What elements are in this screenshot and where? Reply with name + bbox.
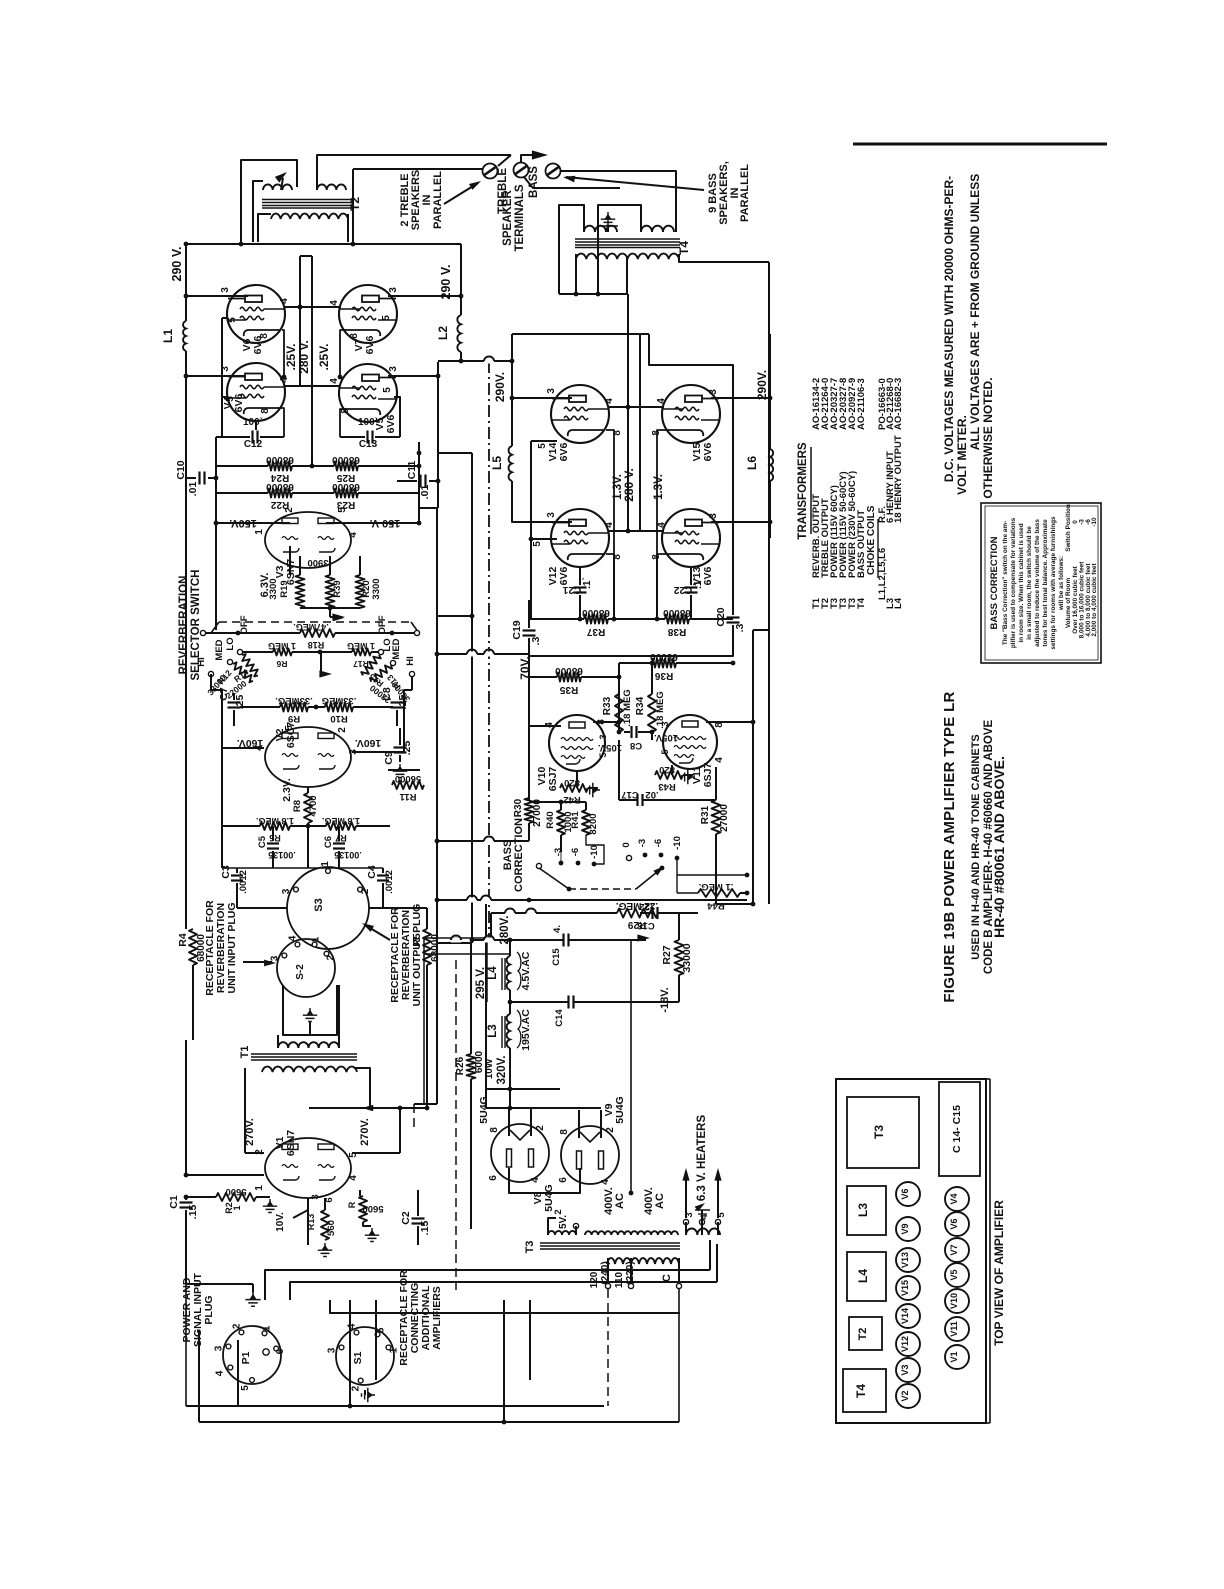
svg-text:3: 3 [327,1347,338,1353]
svg-text:.3: .3 [734,623,746,632]
transformer T3 primary [607,1258,679,1264]
svg-text:5: 5 [537,443,548,449]
tube V11 6SJ7 [663,715,717,769]
svg-text:5: 5 [598,752,608,757]
capacitor C6 .00135 [333,842,345,844]
riser bundle horizontals lower [330,1300,680,1313]
long verticals lower mid [490,913,492,940]
resistor R24 68000 [216,465,268,467]
svg-text:C15: C15 [551,948,562,966]
svg-text:CORRECTION: CORRECTION [513,818,525,892]
svg-text:.18 MEG: .18 MEG [622,689,633,727]
bottom rail 2 [199,1421,679,1423]
capacitor C10 .01 [186,477,196,479]
resistor R41 8200 [585,802,587,810]
svg-text:REVERBERATION: REVERBERATION [178,576,190,675]
wire mid buses [299,256,301,386]
tube V8 5U4G [491,1124,549,1182]
capacitor C1 .15 [185,1197,187,1200]
resistor R29 .22MEG [560,912,617,914]
svg-text:4: 4 [348,532,359,538]
svg-text:.25: .25 [401,741,413,756]
svg-text:T4: T4 [856,597,867,609]
pin5 V14 [531,440,557,442]
resistor R16 1MEG [243,651,273,653]
svg-text:6V6: 6V6 [385,415,397,434]
svg-text:OFF: OFF [377,615,388,634]
capacitor C13 100 [340,409,346,437]
svg-text:1 MEG: 1 MEG [268,641,296,651]
contacts left LO MED HI [237,649,242,654]
switch solid row [200,630,205,635]
panel outline [836,1079,986,1423]
capacitor C5 .00135 [267,842,279,844]
socket S2 receptacle [277,939,335,997]
wire 954 rail [424,953,510,955]
svg-text:settings for rooms with averag: settings for rooms with average furnishi… [1050,516,1057,650]
speaker terminal screw BASS [514,163,529,178]
svg-text:V7: V7 [949,1244,959,1255]
right bus from T4 [768,630,770,904]
wire L3 to V8 area [509,1089,511,1108]
svg-text:5: 5 [337,507,348,513]
svg-text:OTHERWISE NOTED.: OTHERWISE NOTED. [981,377,995,498]
svg-text:2: 2 [351,1385,362,1391]
svg-text:0: 0 [621,842,632,847]
svg-text:68000: 68000 [582,607,610,618]
svg-text:V5: V5 [949,1269,959,1280]
ground T4 secondary [601,212,615,226]
pin4 row V4-V5 [285,385,340,387]
svg-text:R4: R4 [177,933,189,947]
svg-text:1: 1 [254,1185,265,1191]
wire V3 plate left to rail [216,522,290,524]
svg-text:C9: C9 [383,751,395,765]
capacitor C16 .22 [651,907,653,919]
svg-text:R37: R37 [586,626,605,637]
svg-text:.25V.: .25V. [317,344,331,371]
svg-text:5U4G: 5U4G [478,1096,490,1123]
svg-text:5: 5 [376,1327,387,1333]
svg-text:.15: .15 [187,1205,199,1220]
T2 box [849,1317,882,1350]
ground in box [303,1008,317,1022]
wires V1 plates [245,1152,264,1154]
svg-text:FIGURE 19B POWER AMPLIFIER TY: FIGURE 19B POWER AMPLIFIER TYPE LR [941,691,958,1002]
speaker terminal screw TREBLE [483,164,498,179]
svg-text:R10: R10 [330,713,347,724]
svg-text:5600: 5600 [362,1203,383,1214]
svg-text:AO-16682-3: AO-16682-3 [893,378,904,430]
wire 512 up to rail 334 [511,334,513,361]
cathode bus V15 V13 [657,430,666,554]
svg-text:C8: C8 [381,687,393,701]
C terminal [676,1283,681,1288]
choke L6 [769,398,771,449]
rail y654 [437,653,529,655]
wires R40 R41 tops [529,801,586,803]
svg-text:4: 4 [329,300,340,306]
wire S3 left [236,900,238,908]
tube V5 6V6 [339,364,397,422]
svg-text:18 HENRY OUTPUT: 18 HENRY OUTPUT [893,435,904,523]
svg-text:8: 8 [349,333,360,339]
svg-text:R42: R42 [563,794,580,805]
capacitor C20 .3 [732,598,734,615]
svg-text:3: 3 [708,513,719,519]
tube V7 6V6 [339,285,397,343]
wires R33 R34 bottom [618,722,620,732]
transformer T1 core [251,1053,357,1055]
bottom wires [185,1244,187,1406]
rail y361 [438,360,512,362]
svg-text:3: 3 [598,734,608,739]
svg-text:HR-40 #80061 AND ABOVE.: HR-40 #80061 AND ABOVE. [991,756,1007,938]
wire V3 plate right [326,522,419,524]
svg-text:C22: C22 [673,584,692,595]
svg-text:270V.: 270V. [244,1118,256,1146]
wire right box from T2 to 290V bus [352,169,354,242]
svg-text:68000: 68000 [266,454,294,465]
wires rectifier plates [508,1108,510,1136]
rail y334 [512,333,649,335]
wire left bus to V3 rows [185,478,187,630]
L4 box [847,1252,886,1301]
svg-text:in room size. When this cabin: in room size. When this cabinet is used [1018,523,1025,642]
svg-text:3: 3 [310,1194,321,1199]
svg-text:.33MEG.: .33MEG. [275,695,313,706]
resistor R10 .33MEG [325,703,353,712]
svg-text:C11: C11 [406,461,418,480]
svg-text:adjusted to reduce the volume: adjusted to reduce the volume of the bas… [1034,519,1041,647]
resistor R14 22000 diag [239,653,261,678]
svg-text:6V6: 6V6 [364,336,376,355]
svg-text:8200: 8200 [588,813,599,834]
svg-text:3: 3 [281,888,292,894]
svg-text:2: 2 [325,954,336,960]
heater riser stubs [709,1240,711,1270]
svg-text:1.8 MEG.: 1.8 MEG. [256,816,294,826]
resistor R37 68000 [530,618,584,620]
svg-text:6: 6 [558,1177,569,1183]
resistor R38 68000 [665,615,689,624]
svg-text:100`: 100` [243,417,263,428]
svg-text:1.3V.: 1.3V. [653,474,665,500]
transformer T3 core [540,1242,680,1244]
tube V2 6SC7 [265,727,351,787]
resistor R42 820 [576,771,578,788]
resistor R26 6000 10W [467,1054,476,1079]
wire bass screw to right [524,177,620,188]
svg-text:4: 4 [530,1177,541,1183]
svg-text:.22 MEG.: .22 MEG. [616,900,658,911]
wire hops at crossings [484,359,494,364]
svg-text:6: 6 [488,1175,499,1181]
svg-text:V9: V9 [900,1223,910,1234]
svg-text:AO-21106-3: AO-21106-3 [856,378,867,430]
svg-text:MED: MED [391,638,402,659]
svg-text:3: 3 [269,955,280,961]
svg-text:T2: T2 [348,197,362,211]
switch dashed box [211,622,219,633]
svg-text:5V.: 5V. [558,1215,569,1229]
mid rails lower [437,942,472,944]
resistor R8 4700 [304,793,312,823]
svg-text:5: 5 [225,396,236,402]
svg-text:5: 5 [660,749,670,754]
resistor R12 33000 diag [231,661,255,683]
svg-text:.3: .3 [530,636,542,645]
V1 right plate riser [399,1108,401,1153]
choke L4 [507,956,510,990]
tube V1 6SN7 [265,1138,351,1198]
svg-text:tones for best tonal balance.: tones for best tonal balance. Approximat… [1042,519,1049,647]
svg-text:3900: 3900 [307,557,328,568]
svg-text:R35: R35 [559,684,578,695]
svg-text:4: 4 [714,757,725,763]
wire V4 cathode to C12 [281,408,284,437]
svg-text:290 V.: 290 V. [439,265,453,300]
svg-text:4.5V.AC: 4.5V.AC [520,951,532,990]
svg-text:5600: 5600 [225,1186,246,1197]
wire 940 rail [560,939,563,941]
svg-text:3: 3 [214,1345,225,1351]
svg-text:T3: T3 [524,1241,536,1254]
svg-text:C14: C14 [554,1009,565,1027]
tube V10 6SJ7 [549,715,605,771]
pin5 bus x531 [530,441,532,619]
svg-text:PLUG: PLUG [203,1295,215,1324]
svg-text:100`: 100` [358,417,378,428]
svg-text:C12: C12 [244,439,263,450]
svg-text:8: 8 [340,408,351,414]
capacitor C12 100 [221,397,223,437]
svg-text:The "Bass Correction" switch o: The "Bass Correction" switch on the am- [1002,521,1009,645]
svg-text:3: 3 [388,366,399,372]
wires V3 cathodes [299,556,301,575]
svg-text:10W: 10W [484,1058,495,1079]
mains dash lines [607,1289,609,1406]
pin3 lead V7 [388,295,461,297]
svg-text:8: 8 [489,1127,500,1133]
svg-text:plifier is used to compensate: plifier is used to compensate for variat… [1010,517,1017,648]
svg-text:3: 3 [546,512,557,518]
bottom rails left [185,1230,187,1284]
svg-text:820: 820 [659,764,675,775]
svg-text:6V6: 6V6 [558,443,570,462]
wire T2 secondary right to top rail [317,155,511,190]
svg-text:290V.: 290V. [493,372,507,402]
resistor R7 1.8MEG [326,822,356,830]
capacitor C21 .1 [579,567,581,585]
transformer T2 primary [271,214,348,219]
svg-text:-6: -6 [570,848,581,856]
svg-text:R38: R38 [667,626,686,637]
tube V4 6V6 [227,363,285,421]
transformer T3 heater winding [686,1228,720,1235]
svg-text:C17: C17 [621,789,638,800]
svg-text:R34: R34 [635,696,646,715]
pin4 lead V6 [284,306,341,308]
ground arrow below R39 [332,613,345,620]
svg-text:PARALLEL: PARALLEL [432,171,444,229]
svg-text:6.3 V. HEATERS: 6.3 V. HEATERS [696,1115,708,1202]
svg-text:V6: V6 [900,1188,910,1199]
T3 box [847,1097,919,1168]
wire T4 primary left lead [575,254,577,294]
svg-text:6: 6 [275,1348,286,1354]
transformer T1 secondary [278,1042,339,1048]
wire left bus x186 [185,244,187,321]
svg-text:L4: L4 [893,597,904,609]
svg-text:L4: L4 [856,1269,870,1283]
svg-text:C1: C1 [168,1195,180,1209]
svg-text:V12: V12 [900,1336,910,1352]
resistor R11 56000 [388,769,420,771]
svg-text:1: 1 [311,936,322,942]
resistor R35 68000 [529,676,557,678]
transformer T2 secondary left [263,184,292,190]
choke L4 core [501,958,503,990]
svg-text:.47MEG.: .47MEG. [293,622,329,632]
svg-text:68000: 68000 [332,454,360,465]
svg-text:6SN7: 6SN7 [285,1130,297,1156]
svg-text:will be as follows:: will be as follows: [1058,556,1065,611]
svg-text:V10: V10 [949,1293,959,1309]
transformer T2 secondary right [317,184,346,190]
svg-text:3300: 3300 [268,578,279,599]
resistor R13b 560 cathode [321,1210,329,1240]
svg-text:BASS CORRECTION: BASS CORRECTION [989,536,1000,629]
capacitor C3 .0012 [236,868,238,873]
svg-text:4700: 4700 [308,795,319,816]
ground arrow right [637,934,650,941]
svg-text:8: 8 [559,1129,570,1135]
wires T1 [277,1035,279,1048]
svg-text:1 MEG: 1 MEG [347,641,375,651]
wires reverb network [210,674,212,690]
svg-text:R29: R29 [627,919,646,930]
svg-text:C: C [661,1274,673,1282]
rail y616 [437,615,472,617]
svg-text:V4: V4 [949,1193,959,1204]
svg-text:1: 1 [320,861,331,867]
wires P1 S1 risers [349,1300,351,1406]
svg-text:R39: R39 [332,580,343,597]
svg-text:V2: V2 [900,1390,910,1401]
svg-text:3: 3 [708,389,719,395]
svg-text:8: 8 [260,408,271,414]
svg-text:L3: L3 [487,1024,499,1037]
wire C19 bus [528,600,530,628]
wire T2 primary right lead [347,214,349,242]
svg-text:R33: R33 [602,696,613,715]
svg-text:-10: -10 [589,845,600,859]
svg-text:5U4G: 5U4G [543,1184,555,1211]
svg-text:4: 4 [287,935,298,941]
L3 box [847,1186,886,1235]
wires V10 left [528,694,530,726]
brace 195V AC [517,1010,521,1048]
wire V1 bottom [307,1198,309,1245]
svg-text:.15: .15 [419,1221,431,1236]
wiper arrow [320,652,322,674]
svg-text:MED: MED [214,639,225,660]
svg-text:6V6: 6V6 [702,443,714,462]
svg-text:27000: 27000 [719,804,730,832]
svg-text:in a small room, the switch sh: in a small room, the switch should be [1026,526,1033,640]
pin4 row V12-V13 [609,530,664,532]
switch off arrow [333,615,344,621]
svg-text:C 14- C15: C 14- C15 [951,1105,963,1153]
svg-text:V11: V11 [949,1321,959,1337]
svg-text:R43: R43 [658,781,675,792]
choke L1 [183,321,186,351]
wire mid buses right quad [627,294,629,531]
resistor R39 3900 [326,575,335,608]
ground S1 [362,1388,376,1402]
svg-text:TRANSFORMERS: TRANSFORMERS [797,442,809,539]
svg-text:5: 5 [284,725,295,731]
svg-text:R26: R26 [455,1056,466,1075]
svg-text:C7: C7 [218,687,230,701]
resistor R9 .33MEG [280,703,308,712]
svg-text:AC: AC [654,1193,666,1209]
T3 primary taps [605,1283,610,1288]
svg-text:5: 5 [240,1385,251,1391]
T1 primary right lead [354,1068,370,1108]
wire bass screw to T4 [560,171,676,232]
svg-text:T2: T2 [857,1328,869,1341]
wires to S3 [222,867,308,869]
svg-text:.1`: .1` [582,577,593,589]
transformer T4 core [575,238,680,240]
svg-text:2: 2 [337,727,348,733]
svg-text:2: 2 [231,1323,242,1329]
svg-text:5: 5 [227,317,238,323]
wire T2 primary left lead [258,214,271,242]
resistor R18 .47MEG [300,629,335,637]
svg-text:L1,L2,L5,L6: L1,L2,L5,L6 [877,548,888,600]
wire L5 bottom to V12 pin3 [512,481,572,522]
capacitor C15 [567,996,569,1009]
svg-text:C2: C2 [400,1211,412,1225]
pin4 V14 [609,406,664,408]
svg-text:C20: C20 [715,607,727,626]
svg-text:C10: C10 [175,460,187,479]
resistor R4 68000 [185,630,187,929]
bass switch 1 wires [560,835,562,852]
bass correction switch 2 [627,856,632,861]
capacitor C2 .15 [417,1190,419,1216]
svg-text:C13: C13 [359,439,378,450]
tube V14 6V6 [551,385,609,443]
svg-text:2: 2 [535,1125,546,1131]
svg-text:Volume of Room: Volume of Room [1065,578,1072,629]
svg-text:V1: V1 [949,1351,959,1362]
svg-text:4: 4 [214,1370,225,1376]
resistor 5600 right [359,1190,361,1196]
svg-text:R41: R41 [570,811,581,829]
svg-text:4: 4 [279,377,290,383]
arrow to treble speakers [275,169,289,182]
svg-text:R36: R36 [654,670,673,681]
svg-text:S1: S1 [352,1351,364,1364]
svg-text:4: 4 [346,1323,357,1329]
tube circles row1 [896,1182,920,1206]
svg-text:C21: C21 [562,584,581,595]
svg-text:.01: .01 [187,482,199,497]
